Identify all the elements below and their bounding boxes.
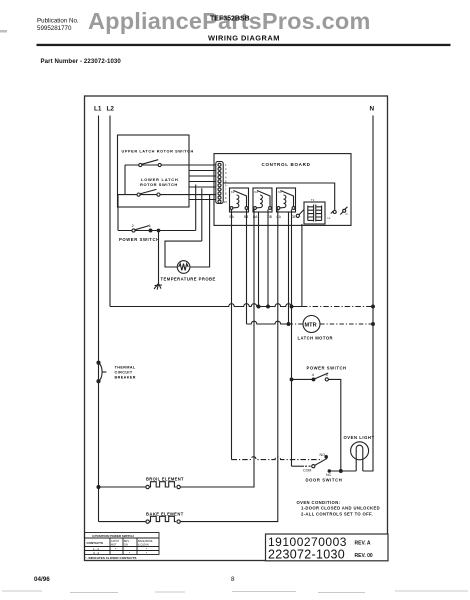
switch upper latch rotor switch xyxy=(139,163,142,166)
terminal board L1 xyxy=(333,211,336,214)
wire door switch NC to lamp xyxy=(329,470,356,472)
wire latch box output 3 xyxy=(189,175,216,177)
wire board top run to right terminals xyxy=(223,183,335,210)
wire latch motor line with hops xyxy=(247,321,289,324)
wire bake feed xyxy=(99,521,146,523)
svg-text:3 POSITION POWER SWITCH: 3 POSITION POWER SWITCH xyxy=(92,534,134,538)
oven light lamp xyxy=(351,442,369,460)
wire broil feed xyxy=(100,486,146,488)
svg-text:REV. 00: REV. 00 xyxy=(355,553,373,559)
svg-text:3 - 4: 3 - 4 xyxy=(93,551,99,555)
svg-text:* - INDICATES CLOSED CONTACTS: * - INDICATES CLOSED CONTACTS xyxy=(85,556,137,560)
svg-text:CONTACTS: CONTACTS xyxy=(87,541,103,545)
switch power switch 2 xyxy=(312,378,315,381)
bake element xyxy=(146,520,149,523)
transformer T1 xyxy=(304,198,325,224)
temperature probe xyxy=(177,261,190,274)
junction dots on bus xyxy=(257,305,260,308)
svg-text:04/96: 04/96 xyxy=(34,576,50,583)
wire N vertical to oven light xyxy=(363,116,373,472)
switch lower latch rotor switch xyxy=(137,193,140,196)
wire door mech dash line xyxy=(232,457,323,460)
door switch xyxy=(312,465,315,468)
wire latch box output 2 xyxy=(189,170,216,172)
wire drop d relay K2 right to bus xyxy=(267,209,269,306)
relay K1 xyxy=(230,188,249,219)
power switch contact table xyxy=(85,533,160,555)
svg-text:TEF352BSB: TEF352BSB xyxy=(210,16,250,23)
node L2 label xyxy=(107,106,115,113)
svg-text:N: N xyxy=(346,212,348,216)
svg-text:L1: L1 xyxy=(94,106,102,113)
wire latch box internal vertical xyxy=(124,165,126,195)
wire drop f to latch motor line xyxy=(288,212,290,324)
svg-text:COM: COM xyxy=(303,469,311,473)
wire bus L2 horizontal with hops xyxy=(110,304,302,307)
wire power switch 2 left xyxy=(292,378,313,380)
terminal board N xyxy=(343,209,346,212)
svg-text:BREAKER: BREAKER xyxy=(115,376,136,380)
thermal circuit breaker xyxy=(97,361,100,364)
svg-text:CIRCUIT: CIRCUIT xyxy=(115,371,133,375)
node L1 label xyxy=(94,106,102,113)
node N label xyxy=(370,106,375,113)
wire latch box output 4 xyxy=(189,181,216,183)
svg-text:223072-1030: 223072-1030 xyxy=(268,548,345,562)
svg-text:POWER SWITCH: POWER SWITCH xyxy=(307,366,347,371)
svg-text:2-ALL CONTROLS SET TO OFF.: 2-ALL CONTROLS SET TO OFF. xyxy=(301,511,373,516)
wire latch box output 5 xyxy=(189,186,216,188)
switch power switch S1 xyxy=(132,229,135,232)
latch switch box xyxy=(118,135,190,207)
wire probe right riser xyxy=(190,195,210,267)
svg-text:BROIL ELEMENT: BROIL ELEMENT xyxy=(146,477,184,482)
broil element junction on L1 xyxy=(97,486,100,489)
wire power switch line xyxy=(118,230,196,232)
header rule xyxy=(37,44,451,46)
wire latch box output 6 xyxy=(189,199,216,201)
svg-text:& CLEAN: & CLEAN xyxy=(138,544,149,547)
relay K3 xyxy=(277,188,296,219)
control board U1 xyxy=(214,154,351,226)
svg-text:TEMPERATURE PROBE: TEMPERATURE PROBE xyxy=(161,277,216,282)
wire drop e relay K3 left to bake xyxy=(180,209,277,521)
wire drop h transformer to neutral jog xyxy=(301,224,303,307)
wire probe loop riser xyxy=(201,188,203,241)
svg-text:5995281770: 5995281770 xyxy=(37,25,72,32)
svg-text:8: 8 xyxy=(231,576,235,583)
svg-text:THERMAL: THERMAL xyxy=(115,366,136,370)
terminal transformer input xyxy=(296,214,299,217)
wire drop g relay K3 right xyxy=(291,209,293,466)
svg-text:POWER SWITCH: POWER SWITCH xyxy=(119,237,160,242)
connector pin numbers xyxy=(224,163,227,204)
wire drop a relay K1 left xyxy=(231,209,233,459)
wire temperature probe loop xyxy=(165,241,202,267)
svg-text:N: N xyxy=(370,106,375,113)
svg-text:BAKE ELEMENT: BAKE ELEMENT xyxy=(146,511,184,516)
svg-text:Part Number - 223072-1030: Part Number - 223072-1030 xyxy=(41,58,122,65)
svg-text:UPPER LATCH ROTOR SWITCH: UPPER LATCH ROTOR SWITCH xyxy=(122,150,194,154)
svg-text:REV. A: REV. A xyxy=(355,541,371,547)
wire drop c2 to bus xyxy=(258,212,260,307)
diagram frame xyxy=(85,96,388,561)
wire ground stem xyxy=(158,231,160,284)
svg-text:1-DOOR CLOSED AND UNLOCKED: 1-DOOR CLOSED AND UNLOCKED xyxy=(301,506,380,511)
connector J1 xyxy=(216,162,223,204)
title block xyxy=(266,534,389,561)
scan artifacts bottom xyxy=(2,591,468,593)
svg-text:MTR: MTR xyxy=(305,322,317,328)
svg-text:NC: NC xyxy=(326,473,332,477)
wire drop c relay K2 left to broil xyxy=(180,209,254,487)
wire power switch 2 right down xyxy=(328,379,340,471)
wire L1 vertical xyxy=(98,116,100,522)
scan speck top left xyxy=(0,30,7,33)
svg-text:DOOR SWITCH: DOOR SWITCH xyxy=(306,478,343,483)
svg-text:T1: T1 xyxy=(311,198,315,202)
svg-text:Publication No.: Publication No. xyxy=(37,18,79,25)
relay K2 xyxy=(253,188,272,219)
wire dash-dot bus to neutral xyxy=(302,306,373,308)
svg-text:CONTROL BOARD: CONTROL BOARD xyxy=(262,162,311,167)
wire dash-dot to latch motor xyxy=(289,323,304,325)
svg-text:ON: ON xyxy=(124,544,128,547)
ground chassis symbol xyxy=(154,284,162,290)
wire L2 vertical to bus corner xyxy=(109,116,111,307)
svg-text:NO: NO xyxy=(320,453,326,457)
wire drop b relay K1 right xyxy=(246,209,248,324)
broil element xyxy=(146,485,149,488)
wire door switch com feed xyxy=(292,465,305,467)
svg-text:ROTOR SWITCH: ROTOR SWITCH xyxy=(140,182,178,187)
wire power switch feed from latch box xyxy=(117,195,119,231)
svg-text:OVEN LIGHT: OVEN LIGHT xyxy=(344,435,375,440)
wire power switch riser to connector xyxy=(195,185,197,231)
wire lower latch switch line to connector xyxy=(118,194,216,196)
wire upper latch switch line to connector pin xyxy=(125,164,216,166)
wire dash-dot latch motor to neutral xyxy=(320,323,373,325)
svg-text:WIRING DIAGRAM: WIRING DIAGRAM xyxy=(208,34,280,43)
svg-text:OVEN CONDITION:: OVEN CONDITION: xyxy=(297,500,341,505)
svg-text:L2: L2 xyxy=(107,106,115,113)
latch motor MTR xyxy=(303,316,320,333)
svg-text:LATCH MOTOR: LATCH MOTOR xyxy=(298,336,334,341)
